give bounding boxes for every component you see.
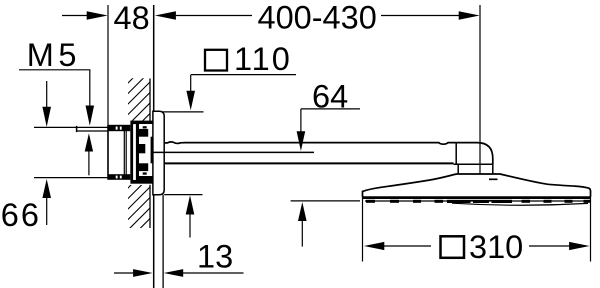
screw M5 bottom threaded bar — [108, 174, 131, 180]
union housing center stub — [139, 144, 145, 153]
elbow bottom line — [454, 163, 493, 165]
64 bottom reference line (spray face level) — [291, 200, 360, 202]
union housing upper tick — [143, 126, 147, 128]
union housing top cap — [130, 121, 153, 125]
66 upper arrow (down) — [46, 81, 48, 108]
extension line 310 right — [590, 190, 592, 262]
label square110 symbol — [205, 50, 227, 71]
110 top extension line — [163, 111, 204, 113]
spray plate bulge line — [452, 203, 588, 205]
arrowhead 48 left (pointing right) — [87, 11, 108, 19]
head logo dash — [489, 178, 498, 180]
13 left dimension line + arrow — [114, 272, 134, 274]
svg-text:13: 13 — [197, 239, 233, 275]
union housing back plate — [130, 124, 133, 180]
extension line x=480 — [479, 5, 481, 174]
spray face thin line — [365, 200, 588, 202]
arrowhead 400-430 right (pointing right) — [459, 11, 480, 19]
union housing lower band — [139, 163, 148, 171]
escutcheon front extension line down — [162, 195, 164, 288]
wall hatch lower band — [127, 166, 150, 242]
dimension line 400-430 left shaft — [176, 15, 252, 17]
union housing wall-side rib — [151, 137, 153, 164]
escutcheon plate (square flange 110) — [153, 111, 164, 195]
shower arm top line with joint wiggles — [164, 142, 456, 144]
66 lower arrow (up) — [42, 179, 51, 198]
svg-text:110: 110 — [234, 41, 292, 77]
svg-text:M5: M5 — [27, 37, 81, 73]
64 up arrow — [298, 202, 307, 221]
union housing second plate — [136, 124, 139, 180]
union housing lower base — [139, 176, 153, 180]
svg-text:400-430: 400-430 — [258, 0, 377, 36]
arrowhead 400-430 left (pointing left) — [155, 11, 176, 19]
110 bottom extension line — [164, 194, 202, 196]
13 right arrow + line — [164, 269, 184, 277]
extension line x=108 — [107, 5, 109, 125]
elbow outline — [456, 143, 493, 165]
64 leader underline — [301, 108, 360, 110]
extension line 310 left — [362, 193, 364, 262]
svg-text:310: 310 — [469, 229, 523, 265]
head rim line — [362, 196, 591, 199]
shower arm inner line — [152, 151, 314, 153]
screw M5 top bottom line — [77, 130, 108, 132]
shower arm bottom line — [165, 162, 454, 164]
union housing upper band — [139, 129, 148, 137]
screw M5 top threaded bar — [108, 125, 131, 131]
110 up arrow — [186, 195, 195, 214]
svg-text:48: 48 — [114, 0, 150, 36]
union housing channel double line — [123, 125, 125, 180]
union housing lower tick — [143, 172, 147, 174]
dimension line 400-430 right shaft — [381, 15, 460, 17]
M5 leader drop — [89, 70, 91, 106]
M5 arrowhead up below screw — [85, 133, 93, 151]
M5 lower arrow shaft — [88, 150, 90, 175]
wall hatch boundary line upper — [149, 78, 151, 121]
mounting bracket vertical — [107, 125, 109, 180]
connector left edge — [457, 164, 459, 173]
shower head outline — [363, 174, 591, 197]
wall hatch upper band — [127, 61, 150, 242]
M5 leader underline — [19, 69, 90, 71]
nozzle dashes — [366, 200, 591, 203]
310 dimension left arrow + line — [364, 242, 385, 250]
M5 arrowhead down at screw top — [86, 106, 95, 126]
connector right edge — [492, 164, 494, 173]
elbow parting line — [455, 143, 457, 165]
110 leader underline — [191, 74, 296, 76]
union housing inner white core — [139, 124, 153, 180]
310 dimension right line + arrow — [529, 245, 571, 247]
wall hatch boundary line lower — [149, 185, 151, 228]
screw M5 bottom: extended line (66 reference) — [34, 177, 108, 179]
label square310 symbol — [441, 236, 465, 257]
screw M5 top: extended top line — [34, 126, 108, 128]
dimension line 48 left segment — [62, 15, 88, 17]
union housing bottom cap — [130, 180, 153, 184]
wall face line — [153, 5, 155, 288]
screw M5 top left cap — [76, 126, 78, 132]
svg-text:66: 66 — [1, 197, 41, 233]
110 leader drop + arrow down — [190, 75, 192, 93]
64 leader drop + arrow down — [300, 109, 302, 133]
